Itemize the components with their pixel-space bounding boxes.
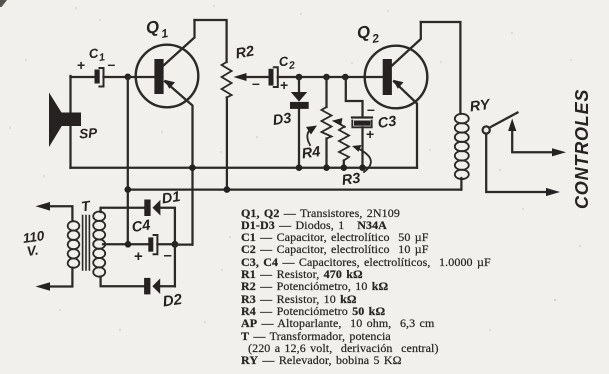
- relay RY coil bottom lead to rail2: [460, 178, 462, 190]
- transistor Q1 circle: [136, 45, 199, 108]
- label D3: [272, 111, 293, 129]
- parts list text block: [241, 207, 531, 367]
- junction dot rail1 / emitter line: [189, 164, 196, 171]
- wire: top-left horizontal from speaker corner to C1: [71, 76, 96, 78]
- diode D3 bottom lead: [298, 109, 300, 168]
- svg-text:T: T: [80, 197, 92, 214]
- junction dot rail2 left end: [125, 186, 132, 193]
- label Q2: [355, 22, 380, 46]
- transistor Q2 emitter lead: [394, 82, 417, 168]
- svg-text:–: –: [164, 247, 172, 264]
- diode D2 anode lead and corner up: [160, 285, 175, 287]
- relay switch pivot: [483, 126, 490, 133]
- control arrow up line: [512, 126, 556, 152]
- transistor Q1 emitter lead: [165, 82, 193, 245]
- R4 wiper arrow line (from R3 top): [339, 123, 345, 128]
- diode D3 triangle: [291, 92, 307, 102]
- label C3: [377, 114, 398, 132]
- diode D3 top lead: [298, 77, 300, 92]
- label T: [80, 197, 92, 214]
- diode D1 cathode bar: [144, 200, 150, 217]
- transistor Q1 base bar: [154, 59, 163, 94]
- capacitor C2 bracket: [274, 67, 278, 87]
- control arrowhead up: [508, 119, 516, 132]
- junction node A (C1 / Q1 base): [125, 74, 132, 81]
- wire: node B vertical down to D2: [174, 244, 176, 286]
- svg-text:–: –: [108, 56, 116, 72]
- R3 label pointer arrowhead: [352, 145, 362, 152]
- svg-text:+: +: [77, 57, 85, 73]
- label C1 plus: [77, 57, 85, 73]
- label D1: [161, 189, 182, 207]
- speaker SP horn: [49, 93, 62, 148]
- svg-text:2: 2: [370, 31, 380, 46]
- svg-text:C4: C4: [131, 218, 152, 236]
- R3 label pointer arc: [356, 148, 371, 173]
- diode D2 cathode bar: [144, 278, 150, 295]
- junction dot at C3 branch: [342, 74, 349, 81]
- junction dot rail1 / R4: [323, 164, 330, 171]
- svg-text:+: +: [280, 77, 288, 93]
- resistor R3 bottom lead: [343, 161, 345, 168]
- wire: left vertical (speaker branch): [69, 76, 71, 168]
- svg-text:R3: R3: [341, 171, 362, 189]
- capacitor C4 plate: [148, 237, 153, 251]
- wire: C4 right lead to node B: [157, 243, 175, 245]
- control arrowhead right (bottom): [546, 188, 560, 196]
- resistor R3 zigzag: [339, 127, 349, 161]
- label R2: [234, 43, 255, 62]
- wire: node A to Q1 base bar: [128, 76, 155, 78]
- svg-text:Q: Q: [355, 22, 371, 43]
- capacitor C3 bottom plate bar: [354, 121, 371, 126]
- junction dot rail1 / C3: [359, 164, 366, 171]
- transformer T secondary bottom lead to D2: [101, 277, 145, 287]
- wire: Q2 collector top loop to relay: [421, 22, 461, 114]
- R4 wiper arrowhead: [332, 118, 343, 126]
- svg-text:SP: SP: [79, 125, 99, 141]
- transformer T primary winding: [68, 221, 80, 268]
- transformer T core: [83, 216, 90, 271]
- diode D1 triangle: [153, 200, 161, 216]
- svg-text:R4: R4: [301, 144, 322, 162]
- capacitor C4 bracket: [154, 235, 158, 254]
- svg-text:R2: R2: [234, 43, 255, 62]
- junction dot center tap: [125, 241, 132, 248]
- potentiometer R4 top lead: [325, 77, 327, 107]
- transistor Q2 base bar: [383, 59, 392, 95]
- svg-text:–: –: [367, 101, 375, 117]
- potentiometer R4 zigzag: [322, 107, 332, 139]
- arrowhead 110V top: [36, 202, 51, 211]
- svg-text:D2: D2: [162, 291, 184, 311]
- label C4 minus: [164, 247, 172, 264]
- wire: switch common down and right: [486, 134, 550, 192]
- label C4: [131, 218, 152, 236]
- R2 wiper arrow line: [241, 76, 268, 78]
- R4 label pointer arc: [307, 129, 311, 146]
- transistor Q2 circle: [365, 46, 428, 109]
- label D2: [162, 291, 184, 311]
- relay RY coil loops: [455, 114, 469, 179]
- relay switch arm: [489, 113, 517, 128]
- label C3 plus: [366, 126, 374, 142]
- junction dot rail1 / D3: [296, 164, 303, 171]
- wire: C3 bottom to rail1: [361, 127, 363, 167]
- svg-text:D1: D1: [161, 189, 182, 207]
- transformer T primary top lead: [44, 206, 72, 221]
- label C4 plus: [134, 248, 143, 265]
- capacitor C1 bracket: [100, 68, 104, 87]
- svg-text:+: +: [134, 248, 143, 265]
- svg-text:1: 1: [160, 26, 169, 41]
- svg-text:Q: Q: [144, 17, 160, 38]
- resistor R2 zigzag: [222, 62, 232, 98]
- potentiometer R4 bottom lead: [325, 139, 327, 168]
- transistor Q2 emitter arrowhead: [393, 80, 404, 89]
- svg-text:2: 2: [287, 59, 296, 72]
- wire: C2 to Q2 base (bias rail): [278, 76, 383, 78]
- transistor Q2 collector lead: [392, 22, 421, 66]
- label SP: [79, 125, 99, 141]
- wire: node B right corner up (to Q1 emitter line): [175, 243, 193, 245]
- label R3: [341, 171, 362, 189]
- wire: C3 branch from bias rail: [346, 77, 363, 117]
- capacitor C2 plate: [269, 69, 274, 86]
- wire: R2 bottom to rail2: [226, 98, 228, 190]
- wire: Q1 collector top loop to R2: [195, 20, 227, 62]
- svg-text:1: 1: [98, 51, 106, 64]
- diode D1 anode lead and corner down: [160, 208, 175, 245]
- capacitor C3 bracket: [352, 121, 371, 128]
- diode D2 triangle: [152, 278, 160, 294]
- junction dot rail2 / R2: [224, 186, 231, 193]
- R2 wiper arrowhead: [234, 73, 247, 81]
- capacitor C3 top plate: [352, 116, 372, 118]
- label C1: [88, 45, 106, 64]
- label C3 minus: [367, 101, 375, 117]
- label C2 plus: [280, 77, 288, 93]
- wire: C1 right lead to node A: [104, 76, 129, 78]
- svg-text:C3: C3: [377, 114, 398, 132]
- label Q1: [144, 17, 169, 41]
- svg-text:D3: D3: [272, 111, 293, 129]
- control arrowhead right (middle): [552, 148, 566, 156]
- scan mark top-left corner: [0, 0, 7, 7]
- arrowhead 110V bottom: [36, 282, 51, 291]
- junction dot at R4 top: [323, 74, 330, 81]
- R4 label pointer arrowhead: [306, 126, 317, 135]
- junction node B (rectifier output): [172, 241, 179, 248]
- transistor Q1 collector lead: [164, 20, 195, 66]
- label C2: [278, 53, 296, 72]
- rail 2: supply horizontal wire: [128, 188, 462, 190]
- svg-text:+: +: [366, 126, 374, 142]
- speaker SP magnet: [61, 113, 82, 127]
- junction dot at D3 top: [296, 74, 303, 81]
- junction dot rail1 / R3: [341, 164, 348, 171]
- wire: node A vertical down to rail2 and center tap: [127, 77, 129, 244]
- transformer T secondary winding: [93, 212, 105, 277]
- transistor Q1 emitter arrowhead: [165, 80, 176, 89]
- diode D3 cathode bar: [290, 102, 309, 109]
- label R4: [301, 144, 322, 162]
- transformer T center tap wire: [103, 243, 149, 245]
- label 110 V.: [22, 228, 46, 259]
- transformer T primary bottom lead: [44, 268, 72, 287]
- svg-text:V.: V.: [26, 243, 40, 259]
- transformer T secondary top lead to D1: [101, 208, 145, 212]
- rail 1: common horizontal wire: [71, 167, 418, 169]
- label CONTROLES: [572, 89, 592, 209]
- label C1 minus: [108, 56, 116, 72]
- label C2 minus: [252, 75, 260, 91]
- svg-text:CONTROLES: CONTROLES: [572, 89, 592, 209]
- svg-text:–: –: [252, 75, 260, 91]
- label RY: [469, 97, 492, 116]
- svg-text:RY: RY: [469, 97, 492, 116]
- capacitor C1 plate: [95, 70, 100, 84]
